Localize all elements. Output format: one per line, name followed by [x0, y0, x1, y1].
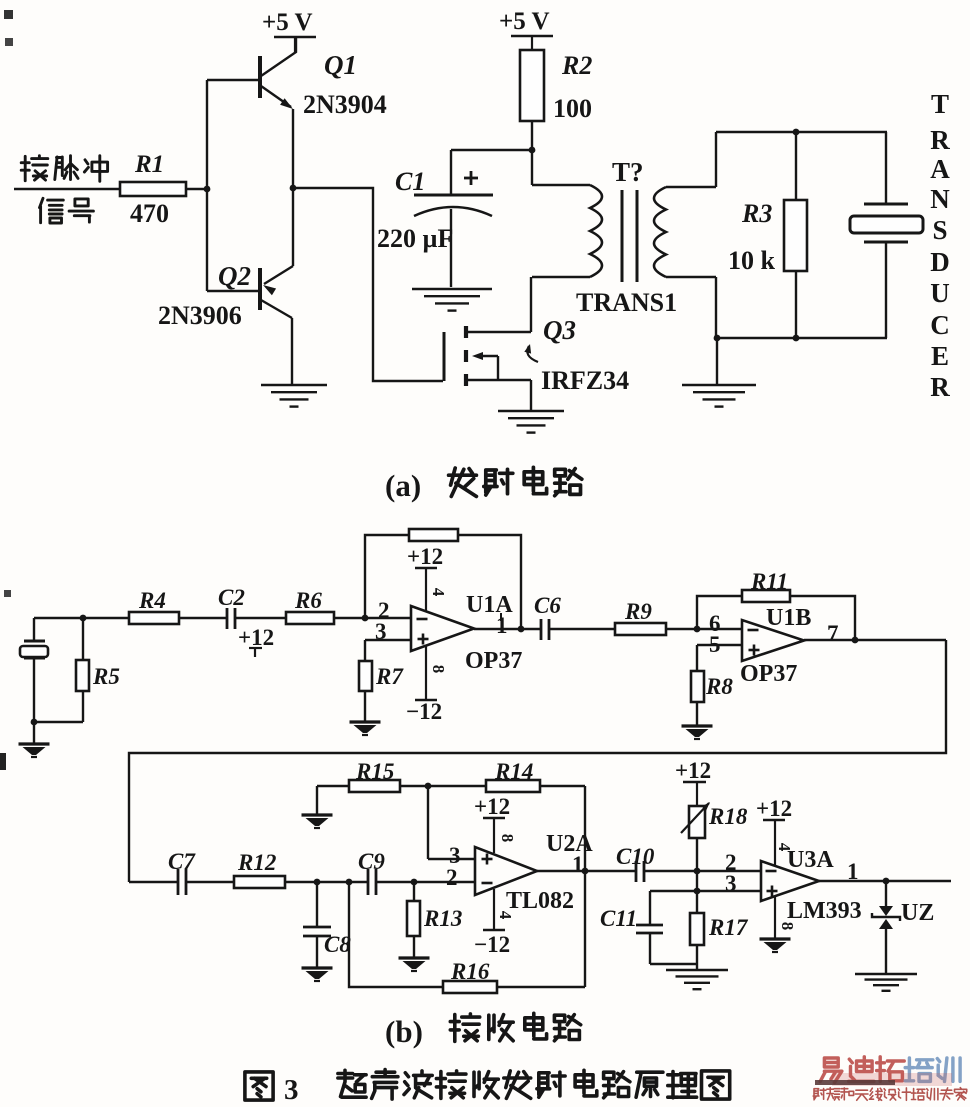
op-amp U3A — [761, 861, 819, 901]
svg-text:+12: +12 — [238, 625, 274, 650]
svg-text:10 k: 10 k — [728, 246, 776, 275]
transistor Q3 (IRFZ34 MOSFET) — [443, 332, 446, 381]
title 超声波接收发射电路原理图 — [338, 1070, 366, 1097]
svg-text:R4: R4 — [138, 588, 166, 613]
wire U1A out — [474, 628, 541, 630]
svg-text:R15: R15 — [355, 759, 394, 784]
svg-text:OP37: OP37 — [465, 648, 522, 674]
svg-text:+5 V: +5 V — [262, 9, 313, 36]
resistor R9 — [615, 623, 666, 635]
scan specks — [4, 10, 13, 19]
node R16 — [346, 879, 353, 886]
node U1A out — [518, 626, 525, 633]
svg-text:C8: C8 — [324, 932, 351, 957]
svg-text:R16: R16 — [450, 959, 490, 984]
wire input top — [34, 617, 129, 619]
ground input — [33, 722, 35, 743]
node R13 — [411, 879, 418, 886]
svg-text:470: 470 — [130, 199, 169, 228]
wire U3A out — [819, 880, 951, 882]
svg-text:1: 1 — [496, 613, 508, 638]
capacitor C8 — [316, 882, 318, 926]
svg-text:U1B: U1B — [766, 605, 811, 631]
svg-text:R6: R6 — [294, 588, 322, 613]
ground R13 — [413, 936, 415, 957]
ground R15 — [316, 786, 318, 814]
transformer T1 secondary — [654, 187, 666, 277]
feedback resistor U1A — [365, 535, 409, 618]
svg-text:7: 7 — [827, 621, 839, 646]
resistor R18 (trimmer) — [689, 806, 705, 838]
svg-text:R17: R17 — [708, 915, 749, 940]
svg-text:4: 4 — [496, 911, 515, 920]
svg-text:R5: R5 — [92, 664, 120, 689]
transducer element — [885, 132, 887, 204]
svg-text:U: U — [930, 278, 950, 308]
svg-text:2N3906: 2N3906 — [158, 301, 242, 330]
svg-text:C1: C1 — [395, 167, 425, 196]
ground R8 — [696, 702, 698, 725]
svg-text:220 µF: 220 µF — [377, 224, 453, 253]
wire R16 up — [584, 871, 586, 987]
wire pin3 U2A — [428, 858, 475, 860]
wire pin5 — [697, 644, 742, 646]
net -12 U2A — [493, 889, 495, 930]
wire R6-U1A — [334, 617, 411, 619]
capacitor C10 — [635, 861, 638, 882]
net -12 U1A — [425, 646, 427, 700]
svg-text:R: R — [930, 125, 950, 155]
capacitor C6 — [540, 619, 543, 640]
capacitor C11 — [649, 891, 651, 924]
ground Q2 — [261, 384, 327, 387]
watermark 射频和天线设计培训专家 — [813, 1089, 826, 1100]
wire bottom rail — [716, 337, 887, 339]
ground R17 — [696, 945, 698, 970]
node bottom-left — [714, 335, 721, 342]
node U2A out — [582, 868, 589, 875]
svg-text:−12: −12 — [474, 932, 510, 957]
wire base bus — [206, 80, 208, 291]
svg-text:LM393: LM393 — [787, 898, 862, 924]
svg-text:R7: R7 — [375, 664, 404, 689]
svg-text:U3A: U3A — [787, 847, 834, 873]
label 接脉冲信号 — [21, 156, 48, 181]
wire R4-C2 — [179, 617, 227, 619]
svg-text:D: D — [930, 247, 950, 277]
wire output to gate — [293, 188, 443, 381]
svg-text:R14: R14 — [494, 759, 533, 784]
wire pin3 — [365, 639, 411, 641]
svg-text:UZ: UZ — [901, 900, 934, 926]
svg-text:R18: R18 — [708, 804, 748, 829]
node R18 pin2 — [694, 868, 701, 875]
resistor R13 — [413, 882, 415, 901]
svg-text:2N3904: 2N3904 — [303, 90, 387, 119]
node R11 out — [852, 637, 859, 644]
svg-text:3: 3 — [284, 1074, 299, 1106]
resistor R15 — [317, 785, 349, 787]
capacitor C1 — [451, 149, 532, 151]
svg-text:OP37: OP37 — [740, 661, 797, 687]
transistor Q2 — [207, 290, 258, 292]
capacitor C9 — [367, 869, 370, 895]
svg-text:+12: +12 — [407, 544, 443, 569]
ground C1 — [412, 288, 492, 291]
svg-text:C: C — [930, 310, 950, 340]
wire C9-U2A — [376, 881, 475, 883]
wire C2-R6 — [235, 617, 286, 619]
svg-text:100: 100 — [553, 94, 592, 123]
wire secondary top — [715, 132, 717, 187]
resistor R5 — [82, 618, 84, 660]
op-amp U1A — [411, 606, 474, 651]
resistor R16 loop — [349, 882, 443, 987]
svg-text:C10: C10 — [616, 844, 655, 869]
svg-text:TL082: TL082 — [506, 888, 574, 914]
resistor R14 — [400, 785, 486, 787]
svg-text:C9: C9 — [358, 849, 385, 874]
resistor R17 — [696, 891, 698, 913]
wire C6-R9 — [549, 628, 615, 630]
wire R9-U1B — [666, 628, 742, 630]
ground UZ — [855, 973, 917, 976]
wire R18 down — [696, 838, 698, 871]
svg-text:R13: R13 — [423, 906, 462, 931]
node R2/C1/T1 — [529, 147, 536, 154]
transformer core — [621, 190, 624, 282]
svg-text:8: 8 — [429, 665, 448, 674]
wire emitter bus — [292, 109, 294, 266]
svg-text:T: T — [931, 89, 949, 119]
wire U2A out — [537, 870, 636, 872]
svg-text:R12: R12 — [237, 850, 276, 875]
svg-text:(a): (a) — [385, 468, 421, 503]
node R17 pin3 — [694, 888, 701, 895]
svg-text:N: N — [930, 184, 950, 214]
ground Q3 source — [498, 410, 564, 413]
zener UZ — [885, 881, 887, 907]
wire R12-C9 — [285, 881, 368, 883]
svg-text:R2: R2 — [561, 51, 592, 80]
resistor R4 — [129, 612, 179, 624]
wire R14 down — [584, 786, 586, 871]
svg-text:Q3: Q3 — [543, 315, 576, 345]
wire C10-U3A — [644, 870, 761, 872]
svg-text:R: R — [930, 372, 950, 402]
svg-text:4: 4 — [429, 588, 448, 597]
ground R7 — [364, 691, 366, 721]
wire R5 bottom — [34, 721, 83, 723]
resistor R7 — [364, 640, 366, 661]
node output junction — [290, 185, 297, 192]
resistor R2 — [520, 50, 544, 121]
wire feedback long — [129, 640, 946, 882]
svg-text:R1: R1 — [134, 151, 164, 178]
node pin6 — [694, 626, 701, 633]
node base junction — [186, 188, 207, 190]
capacitor C7 — [129, 881, 178, 883]
node R15/R14 — [425, 783, 432, 790]
svg-text:TRANS1: TRANS1 — [576, 288, 677, 317]
ground C8 — [316, 936, 318, 967]
node C8 — [314, 879, 321, 886]
svg-text:C6: C6 — [534, 593, 561, 618]
svg-text:A: A — [930, 154, 950, 184]
svg-text:IRFZ34: IRFZ34 — [541, 366, 629, 395]
svg-text:+12: +12 — [756, 796, 792, 821]
capacitor C2 — [226, 608, 229, 629]
resistor R11 loop — [697, 596, 742, 629]
resistor R6 — [286, 612, 334, 624]
wire R2 bottom — [531, 121, 533, 150]
svg-text:1: 1 — [572, 852, 584, 877]
svg-text:R9: R9 — [624, 599, 652, 624]
svg-text:8: 8 — [498, 834, 517, 843]
svg-text:C11: C11 — [600, 906, 637, 931]
title 图3 — [245, 1072, 273, 1100]
transistor Q1 — [258, 56, 262, 98]
resistor R8 — [696, 645, 698, 671]
wire input — [14, 188, 120, 190]
svg-text:C7: C7 — [168, 849, 196, 874]
ground U3A — [774, 897, 776, 938]
op-amp U2A — [475, 847, 537, 895]
svg-text:C2: C2 — [218, 585, 245, 610]
svg-text:R11: R11 — [750, 569, 788, 594]
svg-text:+12: +12 — [675, 758, 711, 783]
resistor R3 — [795, 132, 797, 200]
resistor R12 — [186, 881, 234, 883]
transformer T1 primary — [531, 150, 533, 185]
svg-text:(b): (b) — [385, 1014, 423, 1049]
watermark 易迪拓培训 — [820, 1058, 842, 1083]
svg-text:S: S — [932, 215, 947, 245]
svg-text:−12: −12 — [406, 699, 442, 724]
wire U1B out — [804, 639, 946, 641]
svg-text:+5 V: +5 V — [499, 8, 550, 35]
svg-text:3: 3 — [725, 871, 737, 896]
resistor R1 — [120, 182, 186, 196]
ground secondary — [716, 338, 718, 384]
svg-text:Q1: Q1 — [324, 50, 357, 80]
node R3 top — [793, 129, 800, 136]
svg-text:E: E — [931, 341, 949, 371]
node R5 top — [80, 615, 87, 622]
node UZ — [883, 878, 890, 885]
svg-text:8: 8 — [778, 922, 797, 931]
svg-text:R3: R3 — [741, 199, 772, 228]
svg-text:U2A: U2A — [546, 831, 593, 857]
op-amp U1B — [742, 620, 804, 661]
node xducer bottom — [31, 719, 38, 726]
svg-text:1: 1 — [847, 859, 859, 884]
wire secondary bottom — [715, 277, 717, 338]
svg-text:T?: T? — [612, 157, 644, 187]
svg-text:R8: R8 — [705, 674, 733, 699]
svg-text:Q2: Q2 — [218, 261, 251, 291]
node R3 bottom — [793, 335, 800, 342]
wire pin3 U3A — [650, 890, 761, 892]
svg-text:2: 2 — [446, 865, 458, 890]
receiver transducer — [33, 618, 35, 641]
svg-text:+12: +12 — [474, 794, 510, 819]
wire top rail — [716, 131, 887, 133]
node feedback U1A — [362, 615, 369, 622]
watermark overlay — [832, 1073, 952, 1086]
